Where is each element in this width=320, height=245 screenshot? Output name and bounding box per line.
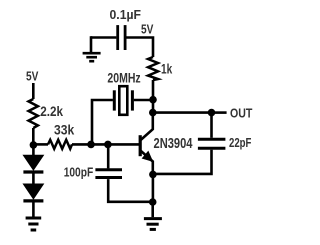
node collector junction: [149, 109, 157, 117]
wire OUT node to 22pF top: [210, 113, 213, 138]
svg-text:20MHz: 20MHz: [107, 69, 140, 85]
wire ground node to ground symbol: [151, 202, 154, 217]
wire collector node to OUT node: [153, 111, 212, 114]
node OUT junction: [208, 109, 216, 117]
svg-text:33k: 33k: [54, 122, 74, 138]
wire crystal left lead and drop to base wire: [92, 100, 113, 144]
transistor Q1 collector lead: [141, 113, 153, 140]
capacitor C2 100pF: [95, 170, 122, 178]
wire 22pF bottom to emitter rail: [153, 150, 212, 174]
transistor Q1 2N3904 base bar: [139, 135, 142, 156]
wire D2 to ground: [32, 203, 35, 217]
resistor R1 1k: [148, 57, 158, 80]
ground top-left: [83, 53, 101, 61]
node ground junction: [149, 198, 157, 206]
svg-text:5V: 5V: [26, 69, 39, 83]
wire OUT stub: [212, 111, 227, 114]
svg-text:22pF: 22pF: [229, 135, 251, 150]
ground bottom-middle: [144, 219, 162, 230]
svg-text:0.1µF: 0.1µF: [110, 7, 142, 22]
wire D1 to D2: [32, 174, 35, 185]
wire crystal right lead: [134, 99, 153, 102]
crystal Y1 20MHz: [114, 86, 132, 115]
diode D2: [23, 184, 43, 201]
transistor Q1 emitter lead: [141, 151, 153, 175]
wire node to diode D1: [32, 145, 35, 156]
node 2.2k/33k/diodes junction: [30, 141, 38, 149]
resistor R2 2.2k: [29, 99, 38, 128]
wire 33k to transistor base: [72, 143, 139, 146]
svg-text:2N3904: 2N3904: [154, 136, 193, 152]
ground bottom-left: [26, 218, 42, 230]
svg-text:OUT: OUT: [230, 106, 252, 121]
resistor R3 33k: [48, 140, 72, 149]
node crystal-right junction: [149, 96, 157, 104]
wire ground drop top-left: [90, 36, 93, 52]
node crystal-left junction: [87, 141, 95, 149]
wire base rail: [33, 143, 48, 146]
transistor Q1 emitter arrow: [143, 152, 153, 162]
wire top rail right segment to 5V corner: [126, 38, 153, 58]
wire 1k bottom to collector node: [152, 80, 155, 114]
svg-text:2.2k: 2.2k: [40, 104, 63, 119]
wire emitter node down to ground node: [152, 174, 155, 202]
node emitter junction: [149, 171, 157, 179]
wire 100pF top lead: [107, 144, 110, 168]
diode D1: [23, 155, 43, 172]
svg-text:5V: 5V: [141, 23, 154, 37]
wire top rail left segment: [91, 36, 116, 39]
capacitor C1 0.1uF plates: [118, 25, 125, 50]
capacitor C3 22pF: [198, 139, 226, 148]
wire 5V left drop: [32, 83, 35, 99]
wire 2.2k bottom to node: [32, 128, 35, 145]
svg-text:1k: 1k: [161, 62, 173, 77]
svg-text:100pF: 100pF: [64, 166, 94, 180]
wire ground node left to 100pF bottom: [108, 179, 153, 202]
node 100pF junction: [104, 141, 112, 149]
